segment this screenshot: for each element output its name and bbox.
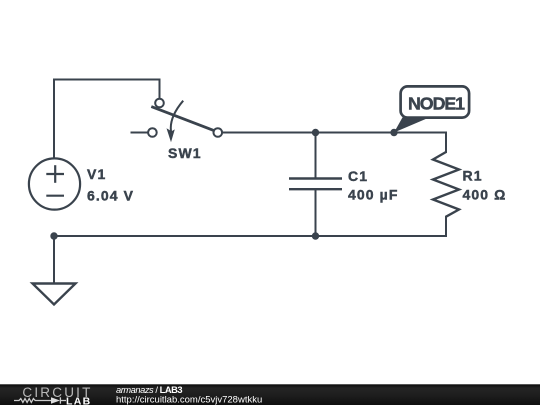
svg-text:R1: R1: [463, 168, 483, 184]
label V1: [87, 166, 106, 182]
svg-text:400 Ω: 400 Ω: [463, 186, 507, 202]
svg-text:SW1: SW1: [168, 145, 202, 161]
junction dot bottom-left: [50, 232, 57, 239]
resistor R1 zigzag: [433, 152, 459, 217]
node NODE1 dot: [390, 129, 397, 136]
wire C1 bottom: [315, 189, 317, 236]
switch terminal right: [214, 128, 223, 137]
node NODE1 flag tail: [394, 117, 430, 132]
wire switch left stub: [132, 132, 148, 134]
svg-text:http://circuitlab.com/c5vjv728: http://circuitlab.com/c5vjv728wtkku: [116, 395, 262, 405]
footer author line: [116, 385, 182, 395]
capacitor C1 plates: [289, 179, 342, 190]
wire top-left from V1 to switch: [54, 80, 160, 159]
wire main horizontal to R1: [222, 132, 446, 134]
svg-text:C1: C1: [348, 168, 368, 184]
svg-text:LAB: LAB: [66, 396, 91, 405]
label R1: [463, 168, 483, 184]
junction dot C1 top: [312, 129, 319, 136]
voltage source V1: [29, 158, 80, 209]
node NODE1 flag box: [401, 86, 470, 117]
wire right drop to R1: [445, 133, 447, 153]
junction dot C1 bottom: [312, 232, 319, 239]
wire C1 top: [315, 133, 317, 179]
label SW1: [168, 145, 202, 161]
value 6.04 V: [87, 187, 134, 203]
switch SW1: [148, 99, 222, 137]
label C1: [348, 168, 368, 184]
wire bottom rail: [54, 235, 446, 237]
footer url line: [116, 395, 262, 405]
wire R1 bottom: [445, 217, 447, 236]
logo CIRCUIT text: [22, 385, 92, 400]
switch blade: [151, 107, 213, 131]
svg-text:6.04 V: 6.04 V: [87, 187, 134, 203]
switch terminal top: [155, 99, 164, 108]
switch arrowhead: [167, 128, 175, 142]
switch terminal left: [148, 128, 157, 137]
switch arc arrow: [171, 101, 183, 133]
svg-text:V1: V1: [87, 166, 106, 182]
svg-text:400 µF: 400 µF: [348, 186, 398, 202]
wire ground stem: [53, 236, 55, 283]
svg-text:NODE1: NODE1: [408, 94, 465, 114]
value 400 uF: [348, 186, 398, 202]
logo LAB text: [66, 396, 91, 405]
svg-text:armanazs / LAB3: armanazs / LAB3: [116, 385, 182, 395]
node NODE1 text: [408, 94, 465, 114]
logo resistor-diode glyph: [14, 397, 66, 403]
ground: [33, 284, 76, 305]
value 400 Ohm: [463, 186, 507, 202]
